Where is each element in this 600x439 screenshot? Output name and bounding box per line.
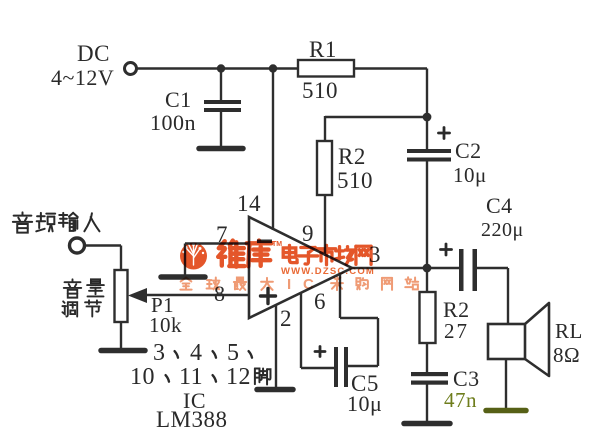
svg-text:47n: 47n	[444, 388, 477, 412]
svg-text:I: I	[287, 276, 291, 293]
ground under C1	[199, 146, 243, 152]
svg-text:R1: R1	[309, 37, 337, 62]
capacitor C2	[426, 117, 428, 149]
op-amp U1 LM388 triangle	[249, 217, 352, 318]
potentiometer P1	[115, 270, 128, 322]
wire top rail left	[137, 67, 298, 69]
resistor R2 510	[317, 141, 332, 195]
watermark logo dzsc	[180, 243, 207, 270]
ground under C3	[404, 421, 450, 427]
svg-text:10μ: 10μ	[347, 391, 382, 416]
speaker RL	[488, 324, 525, 359]
resistor R2 27	[426, 268, 428, 292]
ground under P1	[101, 348, 145, 354]
svg-text:14: 14	[237, 191, 261, 216]
svg-text:6: 6	[314, 289, 326, 314]
svg-text:510: 510	[337, 168, 373, 193]
node junction C1 tap	[217, 64, 225, 72]
resistor R1	[298, 60, 354, 77]
svg-text:5: 5	[227, 340, 240, 366]
wire pin 14	[272, 69, 274, 231]
wire pin 2	[275, 304, 277, 387]
wire node to R2-510	[325, 116, 427, 118]
minus sign inverting input	[257, 240, 272, 244]
wire R1 to C2 node	[426, 69, 428, 118]
watermark dianzi shichangwang characters	[283, 245, 297, 262]
node junction output	[423, 264, 432, 273]
wire pin 7	[185, 242, 249, 244]
svg-text:WWW.DZSC.COM: WWW.DZSC.COM	[281, 266, 375, 277]
svg-text:4: 4	[190, 340, 203, 366]
terminal DC input	[125, 63, 137, 75]
svg-text:RL: RL	[555, 319, 583, 343]
label audio input (Chinese)	[13, 212, 32, 232]
svg-text:510: 510	[302, 78, 338, 103]
wire pot to ground	[120, 322, 122, 348]
capacitor C4	[459, 249, 464, 291]
wire top rail right	[354, 67, 427, 69]
wire C4 to speaker	[507, 268, 509, 324]
svg-text:10μ: 10μ	[453, 163, 487, 187]
svg-text:27: 27	[444, 319, 469, 343]
node junction C2 top	[423, 113, 432, 122]
plus sign non-inverting input	[261, 289, 276, 304]
plus sign C2	[439, 128, 450, 139]
ground under speaker	[486, 408, 526, 414]
wire input to pot	[85, 244, 121, 246]
svg-text:10: 10	[130, 364, 155, 390]
svg-text:DC: DC	[77, 41, 110, 66]
ground pin 2	[257, 387, 293, 393]
watermark Weiku characters	[218, 241, 244, 267]
capacitor C5	[334, 347, 338, 387]
node junction pin14 tap	[269, 64, 277, 72]
wire C5 right riser	[377, 318, 379, 366]
plus sign C4	[441, 244, 452, 255]
svg-text:TM: TM	[272, 241, 282, 248]
svg-text:C2: C2	[455, 138, 482, 163]
label volume adjust (Chinese)	[64, 279, 81, 297]
svg-text:12: 12	[226, 364, 251, 390]
wire speaker to ground	[505, 359, 507, 408]
ground pin 7	[161, 274, 205, 280]
svg-text:3: 3	[153, 340, 166, 366]
wire pin9 lead	[324, 195, 326, 256]
svg-text:LM388: LM388	[156, 407, 228, 432]
capacitor C1	[220, 68, 222, 100]
svg-text:2: 2	[280, 306, 292, 331]
svg-text:100n: 100n	[150, 110, 196, 135]
svg-text:C4: C4	[486, 193, 513, 218]
svg-text:11: 11	[179, 364, 203, 390]
watermark slogan row (Chinese)	[180, 278, 191, 290]
svg-text:10k: 10k	[149, 313, 182, 337]
svg-text:8Ω: 8Ω	[553, 343, 580, 367]
svg-text:C1: C1	[165, 87, 192, 112]
wire pin 6 down	[339, 273, 341, 318]
svg-text:R2: R2	[338, 144, 366, 169]
svg-text:9: 9	[302, 221, 314, 246]
wire output node	[352, 267, 459, 269]
plus sign C5	[315, 347, 325, 357]
capacitor C3	[411, 372, 448, 376]
svg-text:220μ: 220μ	[481, 219, 524, 241]
wire pin 8	[147, 294, 249, 296]
svg-text:C: C	[303, 276, 314, 293]
terminal audio input	[70, 238, 85, 253]
svg-text:4~12V: 4~12V	[51, 65, 114, 90]
